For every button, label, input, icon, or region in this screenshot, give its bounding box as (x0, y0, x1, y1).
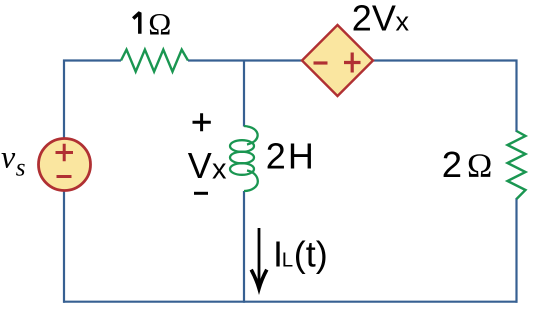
inductor L1 2H coil (230, 126, 258, 191)
voltage source VS circle (39, 139, 91, 191)
label plus above Vx (193, 113, 211, 131)
coil top hook (244, 126, 258, 145)
current arrow IL (258, 228, 261, 286)
svg-text:Ω: Ω (467, 147, 492, 184)
resistor R1 1ohm zigzag (121, 50, 188, 72)
wire left vertical upper (63, 60, 65, 140)
label minus below Vx (194, 192, 208, 195)
minus inside diamond (314, 61, 328, 64)
wire bottom horizontal (63, 301, 518, 303)
wire middle vertical lower (243, 191, 245, 303)
svg-text:2V: 2V (352, 0, 396, 38)
wire top-right horizontal (372, 59, 518, 61)
svg-text:s: s (16, 154, 26, 181)
wire right vertical lower (515, 198, 517, 303)
svg-text:(t): (t) (294, 233, 328, 274)
label 1 ohm (133, 13, 140, 34)
plus inside circle (56, 144, 74, 162)
svg-text:Ω: Ω (148, 6, 171, 41)
wire middle vertical upper (243, 61, 245, 127)
wire right vertical upper (515, 60, 517, 133)
svg-text:2: 2 (442, 144, 462, 185)
minus inside circle (57, 175, 72, 178)
dependent source U1 diamond 2Vx (302, 25, 373, 96)
svg-text:2H: 2H (266, 136, 316, 177)
resistor R2 2ohm zigzag (508, 131, 526, 199)
coil loop 2 (230, 152, 254, 164)
wire top-left horizontal (63, 59, 121, 61)
svg-text:v: v (1, 139, 16, 175)
plus inside diamond (344, 53, 361, 73)
arrowhead (251, 270, 267, 289)
coil loop 1 (230, 140, 254, 152)
svg-text:V: V (188, 145, 212, 186)
coil bottom hook (244, 171, 258, 192)
wire left vertical lower (63, 190, 65, 303)
wire top-middle horizontal (188, 59, 303, 61)
svg-text:x: x (212, 153, 227, 185)
svg-text:x: x (396, 7, 410, 37)
svg-text:L: L (282, 249, 293, 272)
coil loop 3 (230, 163, 254, 175)
